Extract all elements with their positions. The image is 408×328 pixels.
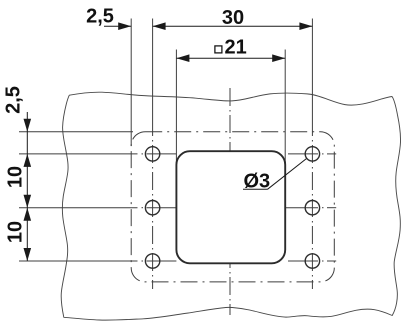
hole bottom-right bbox=[305, 254, 319, 268]
svg-text:30: 30 bbox=[222, 7, 244, 29]
column 1 centerline (top solid part, x=152.6) bbox=[152, 19, 154, 119]
dimension square-21: line with arrows bbox=[176, 57, 285, 59]
row 3 centerline (dash-dot, ends at cutout, resumes after) bbox=[142, 260, 144, 262]
panel outline (broken-out section of mounting plate) bbox=[61, 92, 400, 320]
dimension 30: line with arrows bbox=[153, 25, 313, 27]
hole bottom-left bbox=[145, 254, 159, 268]
hole mid-right bbox=[305, 201, 319, 215]
dimension 2,5 horizontal: line and arrow bbox=[104, 25, 131, 27]
hole top-left bbox=[145, 147, 159, 161]
hole diameter callout leader bbox=[243, 188, 268, 190]
square cutout 21x21 with rounded corners bbox=[176, 151, 285, 263]
dimension square-21: square symbol bbox=[215, 46, 222, 53]
arrow down to footprint edge (2,5) bbox=[24, 119, 32, 132]
row 2 centerline (left solid part) bbox=[19, 207, 138, 209]
cutout vertical centerline (x=230) bbox=[229, 88, 231, 315]
extension line v1 (left edge of footprint, x=131.2) bbox=[130, 19, 132, 147]
column 2 centerline (top solid part, x=312.4) bbox=[311, 19, 313, 119]
column 1 centerline (dash-dot) bbox=[152, 118, 154, 289]
row 1 centerline (dash-dot, ends at cutout, resumes after) bbox=[142, 153, 144, 155]
row 1 centerline (left solid part) bbox=[19, 153, 138, 155]
left vertical dimension line bbox=[26, 112, 28, 261]
arrow up to row1 (10) bbox=[24, 154, 32, 167]
extension line v4 (cutout left edge) bbox=[175, 50, 177, 168]
housing footprint phantom outline (dash-dot rounded rect) bbox=[131, 132, 334, 282]
hole top-right bbox=[305, 147, 319, 161]
svg-text:21: 21 bbox=[225, 37, 247, 59]
svg-text:10: 10 bbox=[5, 221, 27, 243]
column 2 centerline (dash-dot) bbox=[311, 118, 313, 289]
extension line v5 (cutout right edge) bbox=[284, 50, 286, 168]
arrow down to row2 (10) bbox=[24, 195, 32, 208]
row 3 centerline (left solid part) bbox=[19, 260, 138, 262]
arrow down to row3 (10) bbox=[24, 248, 32, 261]
svg-text:10: 10 bbox=[5, 166, 27, 188]
hole mid-left bbox=[145, 201, 159, 215]
extension line A (top edge of footprint, y=131.7) bbox=[19, 131, 133, 133]
svg-text:Ø3: Ø3 bbox=[244, 171, 271, 193]
svg-text:2,5: 2,5 bbox=[3, 86, 25, 114]
row 2 centerline (dash-dot, ends at cutout, resumes after) bbox=[142, 207, 144, 209]
svg-text:2,5: 2,5 bbox=[86, 6, 114, 28]
arrow up from row2 (10) bbox=[24, 208, 32, 221]
